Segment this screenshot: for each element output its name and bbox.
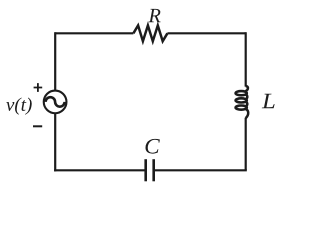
inductor L1 connector loop1-loop2 [246,95,248,100]
inductor L1 top hook [245,86,248,91]
inductor L1 coil loop 1 [236,91,247,95]
capacitor label C [145,139,159,154]
resistor R1 zigzag [133,25,167,41]
wire bottom-left segment [54,169,144,171]
wire bottom-right segment [155,169,247,171]
inductor label L [262,94,275,108]
source V1 plus polarity mark [34,83,43,92]
inductor L1 coil loop 2 [236,98,247,102]
inductor L1 connector loop2-loop3 [246,102,248,107]
capacitor C1 right plate [152,159,155,181]
wire top-right segment [167,32,245,34]
source V1 sine wave [46,97,65,107]
wire left upper segment [54,32,56,91]
source label v(t) [6,98,32,115]
inductor L1 bottom hook [245,109,248,118]
resistor label R [148,9,160,22]
wire right lower segment [245,118,247,171]
source V1 minus polarity mark [33,125,42,127]
capacitor C1 left plate [144,159,147,181]
source V1 circle [44,91,67,114]
wire top-left segment [55,32,133,34]
wire right upper segment [245,32,247,86]
inductor L1 coil loop 3 [236,106,247,110]
wire left lower segment [54,113,56,172]
